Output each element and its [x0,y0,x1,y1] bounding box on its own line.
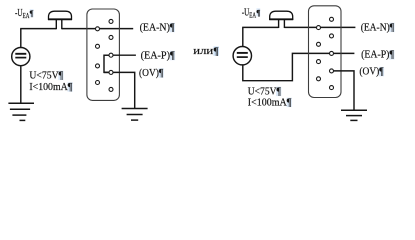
svg-text:(OV)¶: (OV)¶ [359,67,383,78]
label (OV) right [359,67,384,78]
wire top horizontal to jumper (left) [20,28,56,30]
connector X1 (left) [87,9,120,100]
svg-text:(EA-N)¶: (EA-N)¶ [140,22,175,33]
svg-text:(EA-P)¶: (EA-P)¶ [141,50,175,61]
connector pins left column (left connector) [96,27,100,85]
wire OV row with bend to ground (left) [104,72,135,108]
svg-text:¶: ¶ [30,9,34,18]
svg-text:EA: EA [23,12,30,20]
svg-text:(EA-N)¶: (EA-N)¶ [361,22,395,33]
connector X2 (right) [309,6,342,98]
connector pins right column (left connector) [109,19,113,91]
wire source bottom with bends to EA-P (right) [243,53,355,80]
voltage source G1 (left, DC symbol) [12,48,30,66]
svg-text:I<100mA¶: I<100mA¶ [29,82,72,93]
label (EA-N) right [361,22,395,33]
svg-text:(OV)¶: (OV)¶ [139,68,163,79]
svg-text:U<75V¶: U<75V¶ [248,86,281,97]
svg-text:(EA-P)¶: (EA-P)¶ [361,50,394,61]
label (OV) left [139,68,164,79]
wire OV row with bend to ground (right) [332,71,355,110]
wire jumper to EA-N label (left) [62,28,133,30]
node -U_EA label (right) [242,7,261,19]
svg-text:U<75V¶: U<75V¶ [29,70,63,81]
wire jumper to EA-N label (right) [284,26,355,28]
svg-text:¶: ¶ [214,46,219,57]
svg-text:или: или [193,46,213,57]
svg-text:I<100mA¶: I<100mA¶ [248,97,292,108]
ground E3 (right connector) [341,110,367,120]
jumper dome J2 (right) [269,11,293,28]
jumper bracket EA-P to OV (left connector) [104,55,111,72]
label (EA-P) right [361,50,394,61]
connector pins left column (right connector) [317,26,321,81]
wire source top vertical (right) [242,27,244,46]
jumper dome J1 (left) [48,11,72,29]
label (EA-N) left [140,22,175,33]
wire source top vertical (left) [20,29,22,48]
label U<75V (left) [29,70,63,81]
wire EA-P row (left) [104,54,136,56]
node -U_EA label (left) [15,8,34,20]
label (EA-P) left [141,50,175,61]
svg-text:¶: ¶ [257,8,261,17]
wire source bottom vertical (left) [20,66,22,103]
label I<100mA (right) [248,97,292,108]
label U<75V (right) [248,86,282,97]
ground E1 (left source) [8,103,34,120]
label or (или) [193,46,219,57]
voltage source G2 (right, DC symbol) [233,47,251,65]
ground E2 (left connector) [122,109,148,121]
label I<100mA (left) [29,82,72,93]
connector pins right column (right connector) [330,17,334,89]
svg-text:EA: EA [249,11,256,19]
wire top horizontal to jumper (right) [242,26,278,28]
